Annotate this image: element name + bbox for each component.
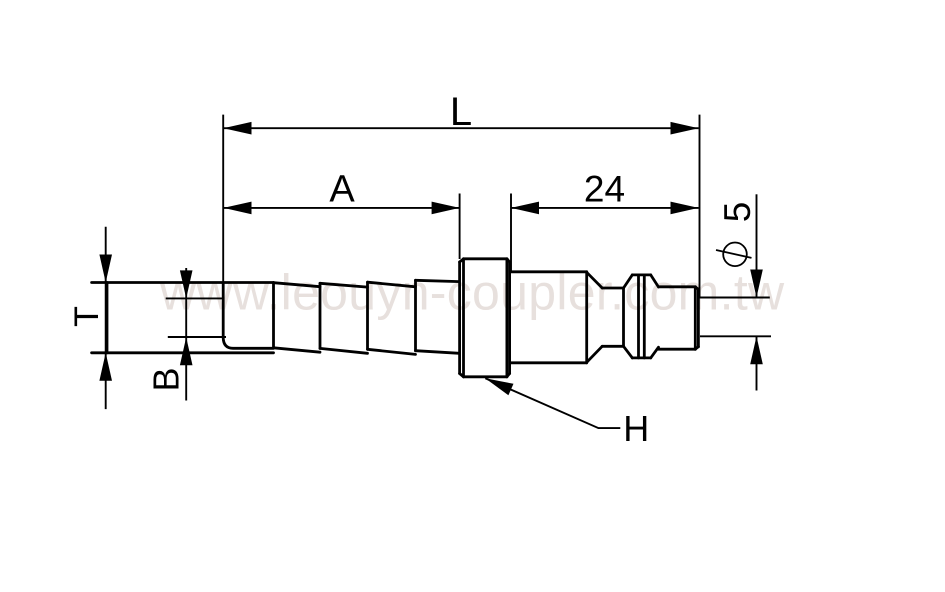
dimension B line bbox=[185, 268, 187, 401]
svg-text:T: T bbox=[68, 306, 106, 327]
arrowhead A right bbox=[432, 202, 460, 215]
arrowhead T top bbox=[99, 255, 112, 283]
bore extension top left bbox=[166, 297, 224, 299]
barb tooth 3 bbox=[368, 282, 416, 354]
tip cylinder bbox=[659, 287, 699, 349]
svg-text:www.leouyn-coupler.com.tw: www.leouyn-coupler.com.tw bbox=[159, 265, 785, 321]
dimension L line bbox=[224, 127, 699, 129]
dimension A line bbox=[224, 207, 460, 209]
arrowhead A left bbox=[224, 202, 252, 215]
svg-text:H: H bbox=[623, 408, 649, 449]
dimension 24 line bbox=[511, 207, 699, 209]
arrowhead phi5 bottom bbox=[750, 336, 763, 364]
arrowhead phi5 top bbox=[750, 270, 763, 298]
extension line right tip bbox=[699, 115, 701, 298]
arrowhead T bottom bbox=[99, 353, 112, 381]
neck groove bbox=[602, 288, 623, 346]
svg-text:A: A bbox=[329, 169, 355, 211]
barb tooth 2 bbox=[320, 283, 368, 353]
arrowhead 24 right bbox=[671, 202, 699, 215]
svg-text:5: 5 bbox=[717, 202, 758, 223]
svg-text:24: 24 bbox=[584, 169, 625, 210]
collar H bbox=[460, 259, 510, 377]
bore extension bottom left bbox=[168, 336, 226, 338]
dimension T line bbox=[105, 227, 107, 409]
plug body bbox=[511, 272, 587, 363]
arrowhead B top bbox=[180, 270, 193, 298]
sleeve bbox=[92, 283, 274, 353]
extension line collar right bbox=[510, 194, 512, 273]
arrowhead 24 left bbox=[511, 202, 539, 215]
barb tooth 4 bbox=[416, 280, 460, 353]
dimension phi5 line upper bbox=[756, 194, 758, 297]
leader line H bbox=[485, 378, 620, 428]
extension line collar left bbox=[459, 194, 461, 260]
bore extension top right bbox=[700, 297, 770, 299]
arrowhead leader H bbox=[485, 378, 513, 395]
extension line left (nipple face) bbox=[222, 115, 224, 283]
arrowhead B bottom bbox=[180, 337, 193, 365]
chamfer cone bbox=[587, 272, 603, 362]
barb tooth 1 bbox=[274, 283, 321, 353]
dimension phi5 line lower bbox=[756, 336, 758, 390]
svg-text:B: B bbox=[146, 367, 187, 391]
arrowhead L right bbox=[671, 122, 699, 135]
detent ridge bbox=[624, 275, 659, 358]
symbol phi slash bbox=[716, 250, 752, 258]
nipple end face bbox=[223, 283, 273, 349]
arrowhead L left bbox=[224, 122, 252, 135]
svg-text:L: L bbox=[450, 90, 472, 134]
bore extension bottom right bbox=[700, 335, 771, 337]
symbol phi circle bbox=[723, 243, 747, 267]
